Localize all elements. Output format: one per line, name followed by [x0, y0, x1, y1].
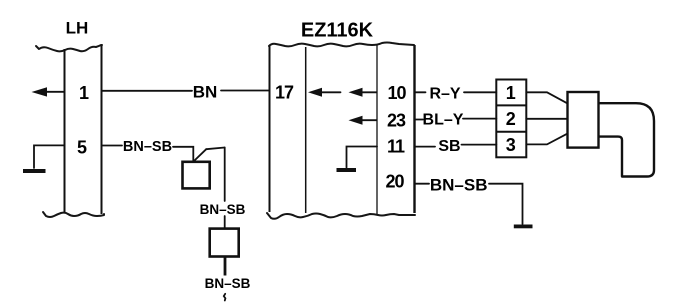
wire connector pin 1 to plug [526, 92, 567, 103]
inline connector box 2 [210, 229, 239, 257]
wire SB (pin 11) [415, 145, 497, 147]
wire BN-SB from LH:5 [102, 146, 194, 162]
wire BN (LH:1 to EZ116K:17) [102, 90, 270, 92]
svg-text:11: 11 [387, 136, 405, 156]
svg-text:BN: BN [193, 83, 218, 102]
torn wire end [224, 294, 226, 301]
svg-text:SB: SB [438, 138, 460, 155]
wire connector pin 2 to plug [526, 118, 567, 120]
component box LH (torn-edge outline) [36, 45, 104, 217]
wire connector pin 3 to plug [526, 134, 567, 145]
svg-text:1: 1 [79, 83, 89, 103]
svg-text:3: 3 [506, 135, 516, 155]
inline connector box 1 [183, 162, 210, 189]
wire branch vertical down [224, 148, 226, 229]
svg-text:BN–SB: BN–SB [123, 139, 172, 155]
arrow inside EZ116K row 10 (left) [308, 88, 341, 97]
svg-text:BL–Y: BL–Y [423, 112, 464, 129]
plug body [568, 92, 599, 148]
svg-text:BN–SB: BN–SB [430, 175, 488, 194]
wire below box 2 [224, 257, 227, 276]
component box EZ116K (torn-edge outline) [267, 43, 415, 219]
arrow inside EZ116K row 10 (right) [349, 88, 377, 97]
wire branch horizontal [206, 148, 225, 150]
svg-text:BN–SB: BN–SB [205, 276, 251, 291]
svg-text:BN–SB: BN–SB [200, 202, 246, 217]
svg-text:LH: LH [66, 19, 89, 38]
connector block pins 1-3 [496, 80, 526, 158]
svg-text:20: 20 [385, 172, 404, 192]
svg-text:EZ116K: EZ116K [301, 20, 374, 42]
svg-text:5: 5 [77, 138, 87, 158]
arrow inside EZ116K row 23 [349, 116, 377, 125]
svg-text:1: 1 [506, 83, 516, 103]
wire BL-Y (pin 23) [415, 118, 497, 121]
svg-text:10: 10 [387, 83, 406, 103]
svg-text:17: 17 [275, 82, 294, 102]
svg-text:23: 23 [387, 111, 406, 131]
arrow out of LH pin 1 [32, 87, 65, 96]
svg-text:R–Y: R–Y [429, 85, 460, 102]
ground at LH pin 5 [23, 145, 65, 173]
wire BN-SB (pin 20) [415, 184, 523, 224]
ground inside EZ116K (pin 11) [337, 147, 378, 173]
harness hook [599, 103, 655, 176]
wire R-Y (pin 10) [415, 91, 497, 93]
wire branch diagonal from box 1 [195, 149, 207, 160]
svg-text:2: 2 [506, 109, 516, 129]
ground at pin 20 wire [514, 225, 533, 229]
